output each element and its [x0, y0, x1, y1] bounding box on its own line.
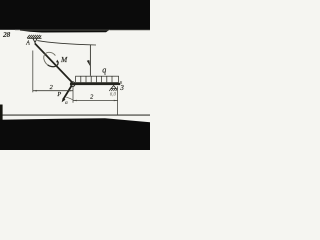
svg-text:28: 28 — [2, 30, 10, 39]
svg-text:P: P — [56, 91, 61, 98]
svg-text:3: 3 — [119, 84, 124, 92]
svg-text:6,0: 6,0 — [110, 92, 117, 97]
svg-text:q: q — [102, 66, 106, 75]
svg-text:M: M — [60, 55, 68, 64]
svg-text:A: A — [25, 40, 30, 46]
